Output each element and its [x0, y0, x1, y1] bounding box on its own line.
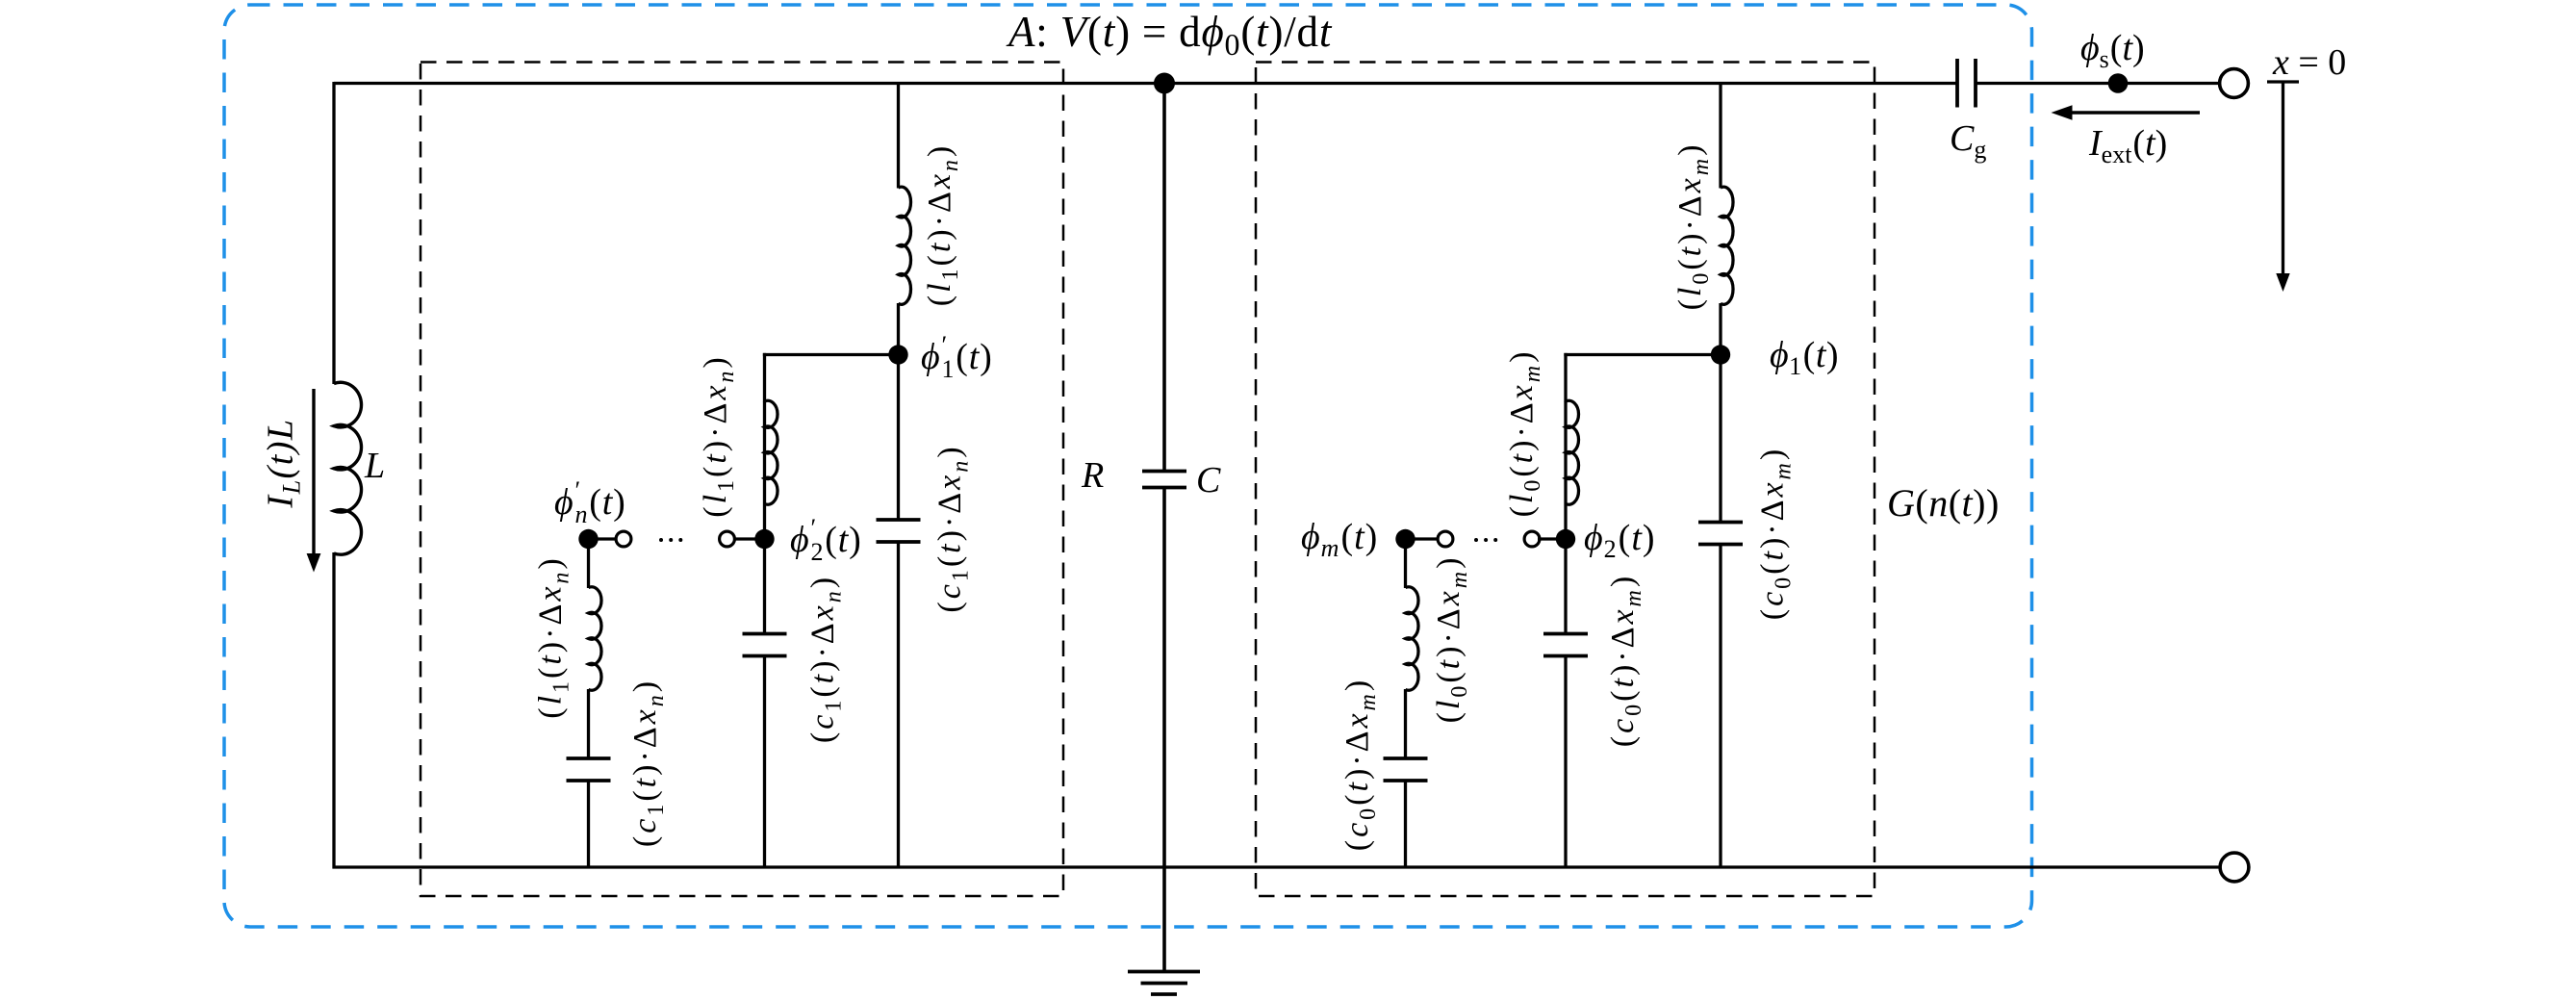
capacitor C: [1142, 470, 1186, 474]
wire inductor to capacitor: [1404, 689, 1407, 758]
svg-text:ϕ2(t): ϕ2(t): [1584, 518, 1656, 563]
inductor l1(t)dx_n of branch phi'_n: [589, 587, 601, 690]
node phi'_2: [754, 529, 774, 549]
right array dashed box (G section): [1256, 63, 1875, 897]
node A on top rail: [1154, 73, 1175, 94]
inductor L: [334, 382, 362, 554]
wire: left vertical branch: [332, 82, 335, 384]
node phi_1: [1711, 345, 1730, 364]
wire phi_2 node up to inductor: [1564, 402, 1567, 540]
wire: link phi_m to contact: [1406, 537, 1441, 540]
inductor l0(t)dx_m above phi_2: [1566, 400, 1579, 504]
wire: top rail (node A rail): [334, 82, 1957, 85]
open contact circle: [1438, 531, 1453, 547]
node phi_2: [1556, 529, 1575, 549]
svg-text:L: L: [364, 446, 385, 486]
inductor l1(t)dx_n above phi'_2: [765, 400, 778, 504]
wire corner to node phi_1: [1564, 353, 1721, 356]
wire: top rail right of Cg: [1976, 82, 2220, 85]
wire capacitor to bottom rail: [1564, 656, 1567, 868]
inductor l0(t)dx_m of branch phi_m: [1406, 587, 1418, 690]
wire: bottom rail: [333, 865, 2221, 868]
open contact circle: [616, 531, 631, 547]
capacitor c1(t)dx_n of branch phi'_2: [743, 632, 787, 636]
dots (ellipsis): [1474, 538, 1478, 542]
node phi'_n: [578, 529, 598, 549]
svg-text:ϕ′1(t): ϕ′1(t): [921, 331, 993, 383]
wire corner to node phi'_1: [763, 353, 899, 356]
wire capacitor to bottom rail: [587, 781, 590, 867]
wire capacitor to bottom rail: [763, 656, 766, 868]
capacitor c1(t)dx_n of branch phi'_n: [567, 756, 611, 760]
capacitor c0(t)dx_m of branch phi_m: [1384, 756, 1428, 760]
svg-text:IL(t)L: IL(t)L: [261, 418, 306, 508]
dots (ellipsis): [659, 538, 663, 542]
ground symbol: [1128, 972, 1200, 995]
wire phi_m node to inductor: [1404, 539, 1407, 588]
svg-text:ϕ′n(t): ϕ′n(t): [554, 476, 626, 528]
wire: link contact to phi'_2: [733, 537, 765, 540]
branch phi_1 : top inductor l0*dx, node, capacitor c0*dx: [1698, 84, 1743, 868]
wire: link contact to phi_2: [1538, 537, 1566, 540]
left array dashed box (R section): [421, 63, 1063, 897]
wire phi'_2 node up to inductor: [763, 402, 766, 540]
current arrow I_L(t): [312, 389, 315, 555]
svg-text:C: C: [1196, 460, 1221, 500]
svg-text:ϕ′2(t): ϕ′2(t): [790, 514, 862, 566]
wire inductor to capacitor: [587, 689, 590, 758]
open contact circle: [720, 531, 735, 547]
wire phi_2 node down to capacitor: [1564, 539, 1567, 634]
svg-text:G(n(t)): G(n(t)): [1887, 481, 2000, 525]
svg-text:A: V(t) = dϕ0(t)/dt: A: V(t) = dϕ0(t)/dt: [1006, 8, 1333, 62]
node phi'_1: [888, 345, 907, 364]
node phi_m: [1395, 529, 1415, 549]
node phi_s: [2108, 73, 2129, 93]
svg-text:ϕ1(t): ϕ1(t): [1770, 335, 1839, 380]
wire phi'_n node to inductor: [587, 539, 590, 588]
terminal circle bottom: [2220, 853, 2249, 882]
wire node A down to capacitor C: [1162, 84, 1166, 472]
wire capacitor to bottom rail: [1404, 781, 1407, 867]
system boundary box (blue dashed rounded rectangle): [224, 5, 2032, 927]
x = 0 position axis arrow: [2267, 82, 2299, 277]
svg-text:x = 0: x = 0: [2272, 42, 2346, 83]
branch phi'_1 : top inductor l1*dx, node, capacitor c1*dx: [877, 84, 921, 868]
wire: link phi'_n to contact: [589, 537, 621, 540]
svg-text:ϕs(t): ϕs(t): [2080, 28, 2145, 73]
wire capacitor C to ground: [1162, 488, 1166, 971]
svg-text:R: R: [1081, 455, 1104, 496]
arrow I_ext(t) pointing left: [2069, 111, 2200, 114]
wire inductor up to corner: [763, 353, 766, 402]
open contact circle: [1524, 531, 1540, 547]
terminal circle top: [2220, 69, 2249, 98]
wire phi'_2 node down to capacitor: [763, 539, 766, 634]
capacitor c0(t)dx_m of branch phi_2: [1543, 632, 1588, 636]
wire inductor up to corner: [1564, 353, 1567, 402]
capacitor Cg (series, in top rail): [1957, 59, 1976, 108]
